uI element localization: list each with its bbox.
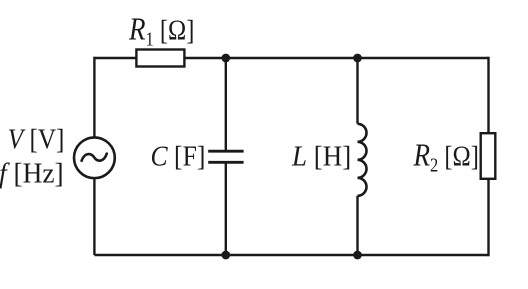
capacitor C bottom plate [208,161,243,164]
node junction dot bottom capacitor [221,251,230,260]
svg-text:V [V]: V [V] [8,123,65,155]
label V [V] [8,123,65,155]
capacitor C top plate [208,150,243,153]
wire capacitor branch upper [225,58,227,151]
resistor R1 [136,50,184,67]
inductor L coil [358,124,367,196]
label L [H] [291,141,351,173]
svg-text:L [H]: L [H] [291,141,351,173]
wire bottom horizontal [94,254,488,256]
wire inductor branch upper [356,58,358,124]
wire right vertical lower (R2 to bottom corner) [487,179,489,256]
AC source sine symbol [82,154,107,161]
wire capacitor branch lower [225,162,227,255]
label C [F] [151,140,206,172]
node junction dot top inductor [353,54,362,63]
wire top segment R1 to right corner [184,57,489,59]
label R1 [ohm] [128,12,194,49]
wire right vertical upper (corner to R2) [487,57,489,133]
svg-text:f [Hz]: f [Hz] [0,158,64,190]
svg-text:R1 [Ω]: R1 [Ω] [128,12,194,49]
label R2 [ohm] [413,139,479,176]
AC source circle U1 [74,137,115,178]
wire top-left segment [94,57,137,59]
node junction dot bottom inductor [353,251,362,260]
resistor R2 [481,133,496,179]
svg-text:C [F]: C [F] [151,140,206,172]
node junction dot top capacitor [221,54,230,63]
svg-text:R2 [Ω]: R2 [Ω] [413,139,479,176]
label f [Hz] [0,158,64,190]
wire inductor branch lower [356,196,358,255]
wire left vertical lower (source to bottom) [93,178,95,256]
wire left vertical upper (corner to source) [93,57,95,139]
